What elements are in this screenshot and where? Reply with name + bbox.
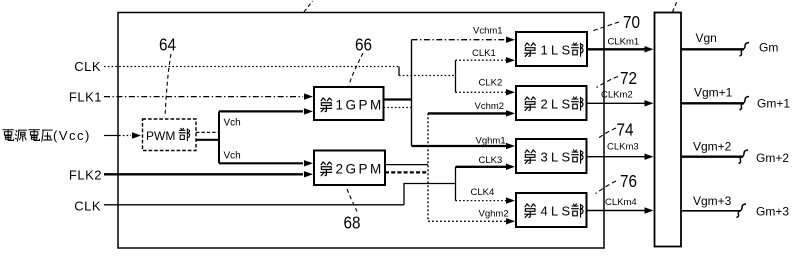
wire CLKm3: [587, 156, 646, 158]
svg-text:CLKm4: CLKm4: [605, 197, 637, 208]
svg-text:70: 70: [623, 12, 640, 32]
svg-text:76: 76: [620, 171, 637, 191]
wire FLK2 (thick): [104, 173, 303, 175]
wire CLK top jog down: [398, 67, 400, 76]
svg-text:2LS: 2LS: [541, 97, 571, 112]
wire CLK2 (dotted): [456, 91, 507, 93]
wire GPM2 out1 (thin): [385, 164, 428, 166]
svg-text:Vgm+1: Vgm+1: [694, 86, 733, 100]
svg-text:Gm+3: Gm+3: [756, 205, 789, 219]
wire FLK1 (dash-dot): [104, 96, 303, 98]
leader 64: [165, 54, 171, 117]
svg-text:CLKm1: CLKm1: [608, 37, 640, 48]
svg-text:Vgm+2: Vgm+2: [693, 140, 732, 154]
wire CLK bottom jog up: [404, 184, 456, 205]
wire GPM1 out2 (dotted): [384, 107, 412, 109]
kanji 電源電圧: [3, 130, 14, 141]
svg-text:Vch: Vch: [224, 118, 241, 129]
wire CLK top (dotted): [104, 66, 399, 68]
svg-text:66: 66: [355, 34, 372, 54]
wire Vgm+2: [681, 156, 743, 158]
svg-text:Gm: Gm: [759, 41, 778, 55]
box 2nd LS: [516, 86, 587, 120]
svg-text:Vghm2: Vghm2: [479, 209, 509, 220]
break squiggle row2: [740, 97, 750, 111]
wire Vchm1 (dash-dot): [412, 39, 507, 41]
svg-text:PWM: PWM: [146, 129, 175, 143]
Vch vertical bus: [218, 111, 220, 163]
wire CLKm4: [587, 210, 646, 212]
break squiggle row1: [740, 43, 750, 57]
svg-text:CLKm2: CLKm2: [601, 90, 633, 101]
leader to tall rect (top, cut by image edge): [673, 1, 678, 12]
box 1st GPM: [314, 87, 384, 120]
wire CLK top to bus (dotted): [399, 75, 456, 77]
svg-text:Vgn: Vgn: [696, 31, 717, 45]
svg-text:CLK2: CLK2: [479, 78, 503, 89]
box 4th LS: [516, 193, 587, 227]
svg-text:Vghm1: Vghm1: [476, 136, 506, 147]
driver block outer box: [118, 13, 604, 249]
leader to outer box (top, cut by image edge): [304, 1, 313, 12]
wire CLK3 (thick): [456, 166, 507, 168]
bus vertical CLK3/CLK4: [455, 167, 457, 201]
svg-text:3LS: 3LS: [541, 150, 571, 165]
svg-text:(Vcc): (Vcc): [53, 128, 91, 143]
svg-text:74: 74: [617, 119, 634, 139]
svg-text:1LS: 1LS: [541, 43, 571, 58]
svg-text:4LS: 4LS: [541, 204, 571, 219]
svg-text:2GPM: 2GPM: [336, 162, 384, 177]
break squiggle row3: [739, 150, 749, 164]
box 3rd LS: [516, 139, 587, 173]
svg-text:Gm+1: Gm+1: [757, 97, 790, 111]
wire GPM2 out2 (thick dashed): [385, 171, 428, 173]
wire Vchm2 (thick): [428, 112, 506, 114]
wire Vghm2 (dotted): [428, 220, 506, 222]
svg-text:Vch: Vch: [224, 151, 241, 162]
wire CLK4 (dotted): [456, 200, 507, 202]
svg-text:1GPM: 1GPM: [336, 98, 384, 113]
box 1st LS: [516, 32, 587, 66]
svg-text:68: 68: [344, 212, 361, 232]
wire Vcc input (dotted): [104, 135, 119, 137]
svg-text:CLK1: CLK1: [472, 48, 496, 59]
wire CLK bottom: [104, 204, 404, 206]
wire CLKm1 (thick): [587, 48, 645, 50]
wire Vgm+1: [681, 102, 744, 104]
break squiggle row4: [737, 204, 747, 218]
wire Vghm1 (thick): [412, 145, 507, 147]
svg-text:CLK3: CLK3: [479, 155, 503, 166]
PWM out dashed: [196, 131, 219, 133]
leader 68: [347, 189, 357, 212]
PWM out thick: [196, 139, 219, 141]
svg-text:FLK1: FLK1: [69, 90, 102, 105]
wire Vgn: [681, 48, 744, 50]
gate line panel (tall rect right): [655, 13, 682, 247]
vertical bus V2: [411, 40, 413, 146]
wire GPM1 out1 (thick): [384, 98, 412, 100]
box 2nd GPM: [314, 151, 385, 186]
wire Vch to GPM1 (thick): [219, 110, 303, 112]
vertical bus V3 (dotted): [427, 113, 429, 221]
svg-text:Vchm2: Vchm2: [475, 101, 505, 112]
svg-text:CLK4: CLK4: [471, 187, 495, 198]
svg-text:72: 72: [620, 68, 637, 88]
svg-text:Vchm1: Vchm1: [473, 26, 503, 37]
svg-text:Gm+2: Gm+2: [756, 151, 789, 165]
leader 66: [349, 53, 363, 86]
wire Vch to GPM2 (thick): [219, 162, 303, 164]
PWM box (dashed): [143, 119, 197, 151]
wire Vgm+3: [681, 210, 741, 212]
svg-text:FLK2: FLK2: [69, 168, 102, 183]
svg-text:CLKm3: CLKm3: [607, 142, 639, 153]
svg-text:64: 64: [159, 34, 176, 54]
bus vertical CLK1/CLK2: [455, 60, 457, 92]
svg-text:Vgm+3: Vgm+3: [693, 194, 732, 208]
wire CLK1 (dotted): [456, 59, 507, 61]
svg-text:CLK: CLK: [74, 59, 101, 74]
wire CLKm2: [587, 102, 646, 104]
svg-text:CLK: CLK: [74, 199, 101, 214]
